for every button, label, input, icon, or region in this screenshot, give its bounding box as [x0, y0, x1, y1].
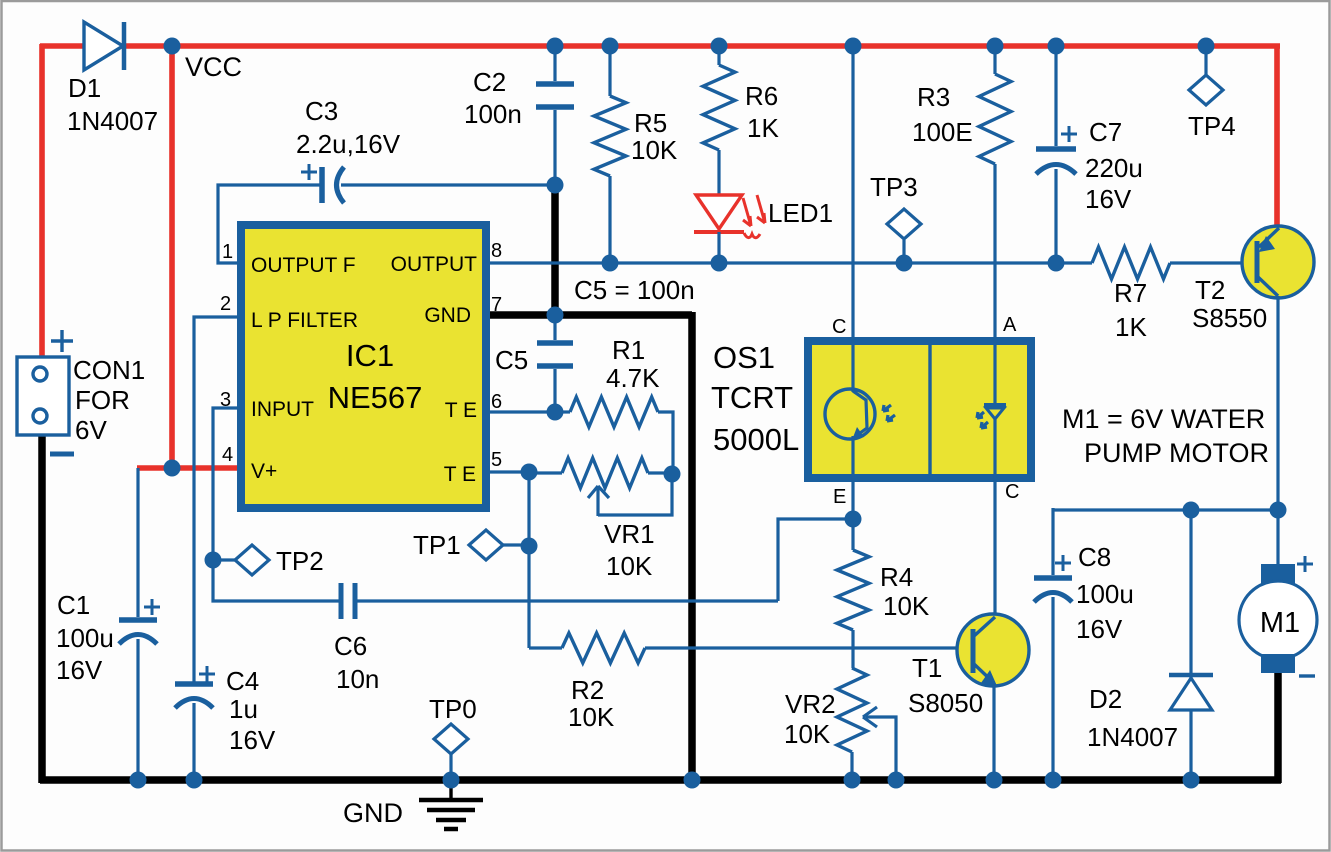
- svg-text:1N4007: 1N4007: [67, 106, 158, 136]
- svg-text:100u: 100u: [1076, 579, 1134, 609]
- node dot C2 C3 junction: [547, 177, 564, 194]
- svg-text:M1 = 6V WATER: M1 = 6V WATER: [1062, 404, 1265, 434]
- wire M1 negative to GND bus: [1274, 670, 1282, 783]
- svg-text:10n: 10n: [336, 664, 379, 694]
- test point TP4: [1189, 44, 1223, 105]
- IR LED inside OS1: [977, 342, 1006, 478]
- svg-text:C3: C3: [305, 96, 338, 126]
- capacitor C7: [1036, 44, 1077, 264]
- wire OS1 LED cathode to T1 collector: [993, 476, 996, 616]
- label TP2: [276, 546, 324, 576]
- svg-text:LED1: LED1: [768, 198, 833, 228]
- svg-text:C1: C1: [57, 590, 90, 620]
- label C2: [464, 67, 522, 129]
- label GND: [343, 798, 403, 828]
- node dots motor rail: [1183, 502, 1287, 519]
- svg-text:T2: T2: [1195, 275, 1225, 305]
- svg-text:C8: C8: [1078, 542, 1111, 572]
- test point TP0: [434, 724, 468, 780]
- label IC1 pin names: [251, 253, 477, 486]
- wire VCC rail (red top bus): [40, 43, 1280, 49]
- svg-text:C6: C6: [334, 631, 367, 661]
- svg-text:GND: GND: [424, 304, 471, 327]
- svg-text:V+: V+: [251, 460, 277, 483]
- wire GND vertical at x=692: [688, 312, 696, 780]
- transistor T1 S8050: [957, 614, 1029, 780]
- svg-text:16V: 16V: [229, 725, 276, 755]
- svg-text:4.7K: 4.7K: [606, 363, 660, 393]
- svg-text:C7: C7: [1089, 117, 1122, 147]
- test point TP1: [469, 530, 530, 560]
- wire IC1 pin 5 node: [486, 470, 529, 473]
- wire VCC left drop to CON1 plus: [39, 44, 45, 358]
- svg-text:PUMP MOTOR: PUMP MOTOR: [1084, 438, 1269, 468]
- svg-text:M1: M1: [1260, 607, 1300, 639]
- label CON1: [73, 355, 145, 445]
- label TP3: [870, 172, 918, 202]
- svg-text:D2: D2: [1089, 684, 1122, 714]
- label pin numbers: [220, 240, 502, 471]
- node dot E: [845, 511, 862, 528]
- wire GND from C2/C3 node down: [551, 186, 559, 315]
- label T1: [908, 653, 983, 718]
- label C5 note: [574, 275, 695, 305]
- node dot GND pin7: [547, 307, 564, 324]
- svg-text:6: 6: [491, 391, 502, 413]
- svg-text:D1: D1: [68, 73, 101, 103]
- diode D2: [1169, 508, 1213, 780]
- svg-text:100n: 100n: [464, 99, 522, 129]
- resistor R6: [703, 44, 735, 195]
- capacitor C6: [341, 583, 778, 619]
- svg-text:5: 5: [491, 449, 502, 471]
- node dot pin6: [547, 404, 564, 421]
- svg-text:A: A: [1003, 314, 1017, 336]
- optocoupler OS1 TCRT5000L body: [808, 341, 1031, 478]
- label C7: [1085, 117, 1143, 214]
- resistor R2: [529, 633, 971, 663]
- label R4: [880, 562, 930, 621]
- wire V+ feed to IC1 pin 4: [137, 465, 245, 471]
- label D2: [1087, 684, 1178, 752]
- svg-text:TCRT: TCRT: [711, 380, 793, 415]
- label M1 motor note: [1062, 404, 1269, 468]
- svg-text:S8550: S8550: [1192, 303, 1267, 333]
- label R1: [606, 335, 660, 393]
- label OS1 terminals: [832, 314, 1019, 508]
- label R3: [912, 82, 973, 147]
- transistor T2 S8550: [1242, 226, 1314, 511]
- svg-text:VCC: VCC: [185, 52, 242, 82]
- wire IC1 pin 6 node: [486, 410, 555, 413]
- svg-text:10K: 10K: [631, 135, 678, 165]
- svg-text:10K: 10K: [784, 719, 831, 749]
- svg-text:1N4007: 1N4007: [1087, 722, 1178, 752]
- label IC1 NE567: [328, 338, 423, 415]
- svg-text:16V: 16V: [1085, 184, 1132, 214]
- connector CON1: [17, 330, 74, 454]
- label TP0: [429, 694, 477, 724]
- wire GND from IC1 pin 7: [486, 311, 692, 319]
- label R5: [631, 108, 678, 165]
- ground symbol: [419, 780, 483, 829]
- svg-text:10K: 10K: [883, 591, 930, 621]
- svg-text:T E: T E: [444, 463, 476, 486]
- capacitor C3: [301, 164, 556, 203]
- svg-text:C: C: [832, 316, 846, 338]
- svg-text:C2: C2: [473, 67, 506, 97]
- node dot VR1 right: [664, 466, 681, 483]
- resistor R3: [979, 44, 1011, 342]
- node dots on OUTPUT bus: [602, 255, 1065, 272]
- label LED1: [768, 198, 833, 228]
- svg-text:6V: 6V: [75, 415, 107, 445]
- motor M1: [1239, 510, 1317, 673]
- node dots on VCC rail: [164, 38, 1215, 55]
- capacitor C4: [175, 666, 215, 780]
- label VR2: [784, 689, 836, 749]
- svg-text:NE567: NE567: [328, 380, 423, 415]
- svg-text:4: 4: [222, 444, 233, 466]
- svg-text:10K: 10K: [568, 702, 615, 732]
- svg-text:L P FILTER: L P FILTER: [251, 309, 358, 332]
- svg-text:10K: 10K: [606, 551, 653, 581]
- svg-text:1: 1: [222, 241, 233, 263]
- label C1: [56, 590, 114, 685]
- wire OS1 collector drop at x=853: [851, 44, 854, 342]
- label D1: [67, 73, 158, 136]
- svg-text:TP3: TP3: [870, 172, 918, 202]
- svg-text:INPUT: INPUT: [251, 398, 314, 421]
- svg-text:CON1: CON1: [73, 355, 145, 385]
- svg-text:1K: 1K: [747, 113, 779, 143]
- svg-text:5000L: 5000L: [713, 422, 799, 457]
- label TP1: [413, 530, 461, 560]
- svg-text:R2: R2: [571, 675, 604, 705]
- svg-text:220u: 220u: [1085, 153, 1143, 183]
- svg-text:R1: R1: [612, 335, 645, 365]
- svg-text:T1: T1: [912, 653, 942, 683]
- label OS1: [711, 340, 799, 457]
- wire OUTPUT bus from pin 8: [486, 261, 1092, 264]
- svg-text:OUTPUT: OUTPUT: [391, 253, 478, 276]
- label R6: [745, 81, 779, 143]
- svg-text:1K: 1K: [1115, 312, 1147, 342]
- svg-text:S8050: S8050: [908, 688, 983, 718]
- label VCC: [185, 52, 242, 82]
- wire pin5 node down to R2: [527, 472, 530, 648]
- svg-text:TP4: TP4: [1188, 111, 1236, 141]
- wire IC1 pin 2 to C4: [194, 317, 243, 682]
- wire VCC drop at x=172: [169, 46, 175, 470]
- LED LED1: [694, 195, 765, 264]
- svg-text:R6: R6: [745, 81, 778, 111]
- svg-text:OUTPUT F: OUTPUT F: [251, 254, 356, 277]
- op-amp U1 IC1 NE567 body: [241, 225, 486, 508]
- svg-text:TP1: TP1: [413, 530, 461, 560]
- node dot TP2: [205, 552, 222, 569]
- capacitor C8: [1034, 508, 1072, 780]
- label R2: [568, 675, 615, 732]
- svg-text:100u: 100u: [56, 623, 114, 653]
- svg-text:100E: 100E: [912, 117, 973, 147]
- wire motor top rail: [1053, 508, 1279, 511]
- resistor R4: [837, 519, 869, 668]
- resistor R5: [594, 44, 626, 263]
- svg-text:GND: GND: [343, 798, 403, 828]
- potentiometer VR2: [837, 668, 896, 780]
- svg-text:C5 = 100n: C5 = 100n: [574, 275, 695, 305]
- wire GND bottom bus (black): [40, 776, 1281, 784]
- svg-text:2: 2: [220, 293, 231, 315]
- resistor R7: [1092, 247, 1255, 279]
- resistor R1: [555, 397, 673, 474]
- test point TP3: [887, 209, 921, 264]
- wire C6 to E node: [778, 519, 853, 601]
- capacitor C1: [119, 468, 160, 780]
- svg-text:R7: R7: [1114, 278, 1147, 308]
- node dot TP1: [521, 538, 538, 555]
- svg-text:C4: C4: [226, 666, 259, 696]
- test point TP2: [213, 545, 269, 575]
- phototransistor inside OS1: [825, 342, 895, 478]
- svg-text:8: 8: [491, 240, 502, 262]
- svg-text:VR2: VR2: [785, 689, 836, 719]
- label VR1: [604, 519, 655, 581]
- label C8: [1076, 542, 1134, 644]
- diode D1: [84, 22, 124, 70]
- svg-text:T E: T E: [445, 399, 477, 422]
- svg-text:16V: 16V: [56, 655, 103, 685]
- svg-text:IC1: IC1: [346, 338, 394, 373]
- svg-text:OS1: OS1: [713, 340, 775, 375]
- svg-text:16V: 16V: [1076, 614, 1123, 644]
- node dot pin5: [521, 464, 538, 481]
- svg-text:FOR: FOR: [75, 385, 130, 415]
- label R7: [1114, 278, 1147, 342]
- svg-text:E: E: [833, 486, 846, 508]
- capacitor C2: [536, 44, 574, 186]
- svg-text:1u: 1u: [229, 694, 258, 724]
- wire IC1 pin 1 to C3: [218, 185, 320, 263]
- svg-text:2.2u,16V: 2.2u,16V: [296, 129, 401, 159]
- svg-text:C5: C5: [495, 345, 528, 375]
- svg-text:R4: R4: [880, 562, 913, 592]
- capacitor C5: [537, 315, 573, 412]
- svg-text:R3: R3: [917, 82, 950, 112]
- svg-text:R5: R5: [634, 108, 667, 138]
- svg-text:C: C: [1005, 481, 1019, 503]
- svg-text:VR1: VR1: [604, 519, 655, 549]
- potentiometer VR1: [529, 458, 672, 516]
- label C3: [296, 96, 401, 159]
- wire OS1 E to node: [851, 476, 854, 521]
- label T2: [1192, 275, 1267, 333]
- label C6: [334, 631, 379, 694]
- svg-text:TP0: TP0: [429, 694, 477, 724]
- svg-text:7: 7: [491, 294, 502, 316]
- label TP4: [1188, 111, 1236, 141]
- node dots GND bus: [130, 772, 1200, 789]
- label M1 polarity: [1297, 556, 1315, 676]
- wire VCC right drop to T2 emitter: [1274, 44, 1280, 227]
- wire IC1 pin 3 to TP2 and C6: [213, 408, 341, 601]
- label C4: [226, 666, 276, 755]
- node dot V+ junction: [164, 460, 181, 477]
- wire GND left drop from CON1 minus: [38, 433, 46, 783]
- svg-text:TP2: TP2: [276, 546, 324, 576]
- label C5: [495, 345, 528, 375]
